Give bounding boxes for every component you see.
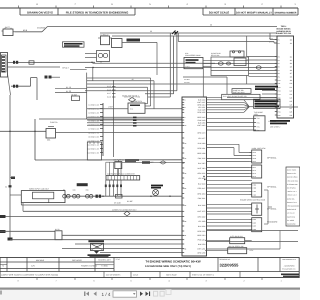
short wires to right connector pins — [262, 90, 277, 92]
svg-text:ORG 1042: ORG 1042 — [197, 116, 205, 119]
svg-text:GRN 1126: GRN 1126 — [197, 172, 205, 175]
svg-text:REPLACED: REPLACED — [72, 259, 82, 262]
svg-text:BLK 1112: BLK 1112 — [198, 162, 205, 165]
bottom wires into central connector — [75, 243, 182, 245]
wire y235 from KL50 — [62, 234, 182, 236]
fuse ellipse 2 — [256, 66, 261, 69]
splice diagonal jump — [42, 27, 48, 32]
svg-text:FUSE 5A: FUSE 5A — [50, 121, 58, 124]
zone ticks bottom — [36, 278, 38, 281]
svg-text:C3 GND 1.2m: C3 GND 1.2m — [88, 111, 99, 114]
svg-text:BLK 1168: BLK 1168 — [198, 204, 205, 207]
svg-text:STANDARD: STANDARD — [267, 221, 278, 224]
bus y196 with fuses — [65, 195, 182, 197]
connector CN2 — [252, 165, 262, 178]
svg-text:CONNECTOR C09: CONNECTOR C09 — [276, 32, 291, 35]
bus wire y67.5 with junction — [85, 67, 277, 69]
zone tick marks and numbers — [18, 6, 20, 9]
bracket from CN boxes to notes — [264, 189, 268, 191]
svg-text:NOTE XX TO YY 100: NOTE XX TO YY 100 — [124, 96, 140, 99]
svg-text:WHT 1231: WHT 1231 — [197, 247, 205, 250]
svg-text:OUT OF ORDER 5: OUT OF ORDER 5 — [106, 273, 120, 276]
relay K2 fuse holder — [46, 129, 56, 139]
header band box — [20, 14, 135, 16]
wires into CN2 — [207, 167, 250, 169]
label TO COMPRESSOR — [127, 39, 141, 42]
glow relay box — [234, 58, 246, 66]
right connector pin rows — [275, 39, 277, 41]
svg-text:ORG 1210: ORG 1210 — [197, 234, 205, 237]
toolbar next page button — [140, 292, 143, 297]
svg-text:FILE STORED IN TEAMCENTER ENGI: FILE STORED IN TEAMCENTER ENGINEERING — [66, 11, 129, 15]
long wire y180.7 — [207, 180, 253, 182]
component box K4 — [184, 58, 203, 69]
vertical x227 down to 97 — [226, 77, 228, 94]
enclosure box left wall x35 — [34, 119, 36, 160]
inner component box lower enclosure — [87, 142, 101, 160]
wide box CYLINDER HEAD — [222, 94, 260, 99]
wire y62.5 from connector — [8, 61, 96, 63]
svg-text:C12 GND 1.2m: C12 GND 1.2m — [87, 147, 99, 150]
wire y239.7 bottom from left vertical — [9, 239, 10, 240]
svg-text:OPTIONAL: OPTIONAL — [267, 208, 277, 211]
svg-text:PNK 1049: PNK 1049 — [198, 119, 206, 122]
svg-text:BLK 1224: BLK 1224 — [198, 243, 205, 246]
DEF pump motor circle — [153, 190, 159, 196]
svg-text:YEL 1189: YEL 1189 — [198, 220, 205, 223]
svg-text:DRAWING NUMBER: DRAWING NUMBER — [275, 11, 297, 14]
wedge converge to splice — [244, 100, 249, 113]
inline connector on y86 — [11, 85, 31, 87]
svg-text:60: 60 — [150, 30, 152, 33]
toolbar first page button — [85, 292, 90, 297]
viewer toolbar background — [0, 288, 300, 300]
wire y67 from connector — [8, 66, 61, 68]
svg-text:PNK 1105: PNK 1105 — [198, 157, 206, 160]
bundle horizontals into ECU connector — [87, 116, 182, 118]
svg-text:1 / 4: 1 / 4 — [102, 292, 111, 297]
SAME AS JCB label box — [232, 89, 251, 94]
toolbar page input box — [113, 291, 137, 297]
notes text box right margin — [286, 167, 300, 226]
svg-text:WHT 1175: WHT 1175 — [197, 210, 205, 213]
fuse circle pair 1 — [63, 194, 67, 198]
svg-text:OPTIONAL: OPTIONAL — [267, 157, 277, 160]
corner drops from interface box — [20, 203, 22, 205]
wire battery to splice, label 60 B — [15, 31, 42, 33]
glow plug component top — [230, 51, 244, 57]
toolbar faint icon 1 — [154, 291, 158, 296]
wires into CN3 CN4 CN5 — [207, 184, 250, 186]
fuse ellipse on y63.5 — [218, 62, 223, 65]
dark label x142 — [142, 161, 150, 163]
svg-text:ORG 1154: ORG 1154 — [197, 192, 205, 195]
terminating resistor label BRACKET WITH — [88, 240, 104, 242]
svg-text:POWER SYSTEMS: POWER SYSTEMS — [81, 265, 98, 268]
wire y131 left — [0, 130, 46, 132]
left edge connector block — [1, 53, 8, 78]
corner from crossover to right connector — [177, 33, 179, 42]
connector CN4 speed knob — [252, 203, 262, 215]
toolbar faint icon 3 — [166, 290, 171, 295]
svg-text:60: 60 — [210, 24, 212, 27]
svg-text:C13 GND 1.3m: C13 GND 1.3m — [87, 151, 99, 154]
bus wire y63.3 — [93, 62, 216, 64]
svg-text:322/09555: 322/09555 — [220, 263, 240, 268]
vertical x37 to lower area — [36, 78, 38, 100]
svg-text:DO NOT MODIFY MANUALLY: DO NOT MODIFY MANUALLY — [236, 12, 272, 15]
note box TO MAIN CHASSIS HARNESS — [63, 42, 85, 47]
component box X2 — [112, 39, 123, 48]
svg-text:WHT 1063: WHT 1063 — [197, 124, 205, 127]
svg-text:RED 1035: RED 1035 — [198, 111, 206, 114]
corner horizontals into ECU sub-box — [145, 103, 148, 105]
central connector pin rows — [182, 99, 184, 101]
vertical right link — [279, 231, 281, 250]
inline connector on y62.5 — [13, 61, 15, 64]
inner connector strip pins x100-105 — [102, 103, 104, 156]
fuse F1 on y62.5 — [29, 61, 34, 64]
svg-text:DRAWN ON VESYS: DRAWN ON VESYS — [27, 11, 53, 15]
bus wire y62 junction — [91, 62, 92, 63]
relay cluster outline box — [211, 57, 249, 76]
svg-text:K 4.0: K 4.0 — [186, 65, 190, 68]
bus lines to central connector lower — [21, 204, 182, 206]
svg-text:C6 GND 1.5m: C6 GND 1.5m — [88, 123, 99, 126]
svg-text:MACHINE: MACHINE — [36, 259, 45, 262]
AD BLUE fuse label — [125, 159, 139, 161]
svg-text:BLU 1084: BLU 1084 — [198, 142, 206, 145]
svg-text:SHEET 1 NO. OF SHEETS 4: SHEET 1 NO. OF SHEETS 4 — [192, 273, 214, 276]
svg-text:CYL HEAD GLOW PLUGS 12V: CYL HEAD GLOW PLUGS 12V — [223, 95, 248, 98]
wires out right of central box bottom — [207, 230, 299, 232]
inline fuse rects on bus — [116, 194, 123, 198]
starter motor M1 enclosure — [97, 51, 110, 62]
svg-text:WIRED INPUT CAB ONLY: WIRED INPUT CAB ONLY — [29, 188, 50, 191]
central engine harness connector J1 box — [182, 97, 207, 256]
left vertical stub label — [11, 177, 15, 180]
svg-text:RED 1203: RED 1203 — [198, 230, 206, 233]
svg-text:C5 GND 1.4m: C5 GND 1.4m — [88, 119, 99, 122]
inline connector on bus — [96, 195, 98, 198]
bus wires y78-y87 turning down to ECU sub-box — [87, 77, 151, 79]
svg-text:60: 60 — [132, 78, 134, 81]
fuse circle pair 2 — [73, 194, 77, 198]
svg-text:T4 ENGINE WIRING SCHEMATIC 56+: T4 ENGINE WIRING SCHEMATIC 56+KW — [145, 260, 200, 264]
vertical x203.3 to glow line — [202, 66, 204, 97]
svg-text:30: 30 — [5, 186, 7, 189]
svg-text:B+ ALT: B+ ALT — [63, 67, 70, 70]
toolbar faint icon 2 — [160, 291, 164, 296]
TVS diode connector — [254, 116, 265, 131]
verticals from connector strip to bus — [105, 180, 107, 196]
svg-text:T4 ENG: T4 ENG — [101, 265, 108, 268]
toolbar prev page button — [94, 292, 97, 297]
right engine connector J2 box — [277, 36, 294, 118]
DEF PUMP label — [151, 185, 163, 187]
resistor note dark text rows — [88, 254, 111, 256]
connector CN1 optional — [252, 150, 262, 163]
svg-text:RED 1147: RED 1147 — [198, 187, 206, 190]
svg-text:'70: '70 — [2, 265, 4, 268]
bus wire y33 with crossover — [100, 32, 277, 34]
svg-text:OPTIONAL: OPTIONAL — [267, 186, 277, 189]
inline connector strip — [106, 176, 140, 180]
svg-text:JCB FUSE 5A: JCB FUSE 5A — [113, 159, 125, 162]
svg-text:PNK 1217: PNK 1217 — [198, 239, 206, 242]
svg-text:WHT 1119: WHT 1119 — [198, 167, 206, 170]
left edge stub y231 — [0, 230, 6, 233]
CAN wires to wedge — [207, 99, 245, 101]
svg-text:DO NOT SCALE: DO NOT SCALE — [209, 12, 230, 15]
svg-text:60: 60 — [100, 61, 102, 64]
toolbar partial icon left edge — [0, 291, 2, 295]
fuse ellipse 1b — [227, 62, 231, 65]
left vertical bus x9.5 — [9, 95, 11, 240]
label under right connector — [270, 120, 290, 122]
verticals above strip — [105, 162, 107, 175]
svg-text:C1 GND 1.0m: C1 GND 1.0m — [88, 103, 99, 106]
wire y70.5 — [211, 70, 277, 72]
svg-text:GRN 1070: GRN 1070 — [197, 131, 205, 134]
bus wire y36 — [112, 35, 277, 37]
svg-text:BLU 1140: BLU 1140 — [198, 182, 205, 185]
fuse bracket label — [77, 183, 88, 186]
interface box left wires — [10, 194, 21, 196]
wires from K4 to relay cluster — [203, 59, 249, 61]
svg-text:GRN 1182: GRN 1182 — [197, 215, 205, 218]
svg-text:DS 1038: DS 1038 — [114, 202, 121, 205]
svg-text:BLU 1196: BLU 1196 — [198, 225, 205, 228]
wires y56.5 y60 to right connector — [247, 56, 277, 58]
wires into TVS diode — [207, 117, 254, 119]
KL.50 switch box — [55, 231, 62, 240]
connector CN5 standard — [252, 218, 262, 232]
CAN bus label block J1939 — [254, 99, 281, 108]
wire curve connector to left vertical — [8, 74, 11, 96]
title block column lines — [6, 258, 8, 272]
svg-text:KL 30F: KL 30F — [127, 200, 134, 203]
toolbar last page button — [146, 292, 151, 297]
svg-text:PNK 1161: PNK 1161 — [198, 197, 206, 200]
title block row lines — [0, 261, 114, 263]
enclosure inner wall x87 — [86, 73, 88, 119]
wires into CN1 stepped — [239, 152, 252, 154]
wire y132.5 to ECU — [56, 132, 183, 134]
bus wire y90.7 y93.8 y97 — [85, 90, 177, 92]
arrow below resistor box — [94, 251, 99, 254]
left edge stub y216 — [0, 215, 6, 218]
svg-text:Not To Scale: Not To Scale — [166, 273, 177, 276]
wire y73.3 y76.7 short — [249, 72, 278, 74]
svg-text:C4 GND 1.3m: C4 GND 1.3m — [88, 115, 99, 118]
svg-text:12V-MACHINE SIDE ONLY (T4) ONL: 12V-MACHINE SIDE ONLY (T4) ONLY) — [145, 265, 191, 268]
ring vertical x246.7 — [246, 36, 248, 57]
diode pair symbol — [45, 76, 48, 79]
svg-text:C9 GND 1.8m: C9 GND 1.8m — [88, 135, 99, 138]
title block outer box — [0, 258, 299, 278]
enclosure wall pin labels KL — [112, 86, 116, 88]
svg-text:YEL 1077: YEL 1077 — [198, 137, 205, 140]
relay K1 box — [101, 36, 110, 45]
starter motor circles — [98, 53, 102, 57]
connector CN3 optional — [252, 183, 262, 197]
engine interface box — [21, 191, 65, 203]
terminating resistor box with X symbol — [91, 243, 104, 250]
svg-text:BLK 1056: BLK 1056 — [198, 122, 205, 125]
wires into right connector top — [269, 33, 271, 40]
trunk verticals dropping from top bus — [169, 33, 171, 97]
interface inner box — [33, 192, 54, 199]
drawing frame top border — [0, 7, 298, 9]
corner up to y77.6 — [30, 78, 32, 87]
corner verticals x147-157 — [147, 87, 149, 104]
enclosure bottom y160 — [35, 159, 182, 161]
svg-text:COMPLY WITH 7003/3Y/01 COMPONE: COMPLY WITH 7003/3Y/01 COMPONENT TO COMP… — [1, 273, 58, 276]
top bus wire y26.5 — [48, 26, 278, 28]
crossover slashes — [172, 31, 176, 35]
svg-text:60 B: 60 B — [23, 29, 28, 32]
svg-text:C7 GND 1.6m: C7 GND 1.6m — [88, 127, 99, 130]
enclosure right wall x113.5 — [113, 80, 115, 157]
svg-text:ORG 1098: ORG 1098 — [197, 152, 205, 155]
svg-text:RED 1091: RED 1091 — [198, 147, 206, 150]
fuse circle pair 3 — [86, 194, 90, 198]
bundle wire labels — [133, 117, 137, 119]
svg-text:GRN 1238: GRN 1238 — [197, 251, 205, 254]
black label rows mid right — [255, 86, 278, 88]
svg-text:1 REF: 1 REF — [108, 106, 113, 109]
battery B1 box — [3, 29, 13, 36]
